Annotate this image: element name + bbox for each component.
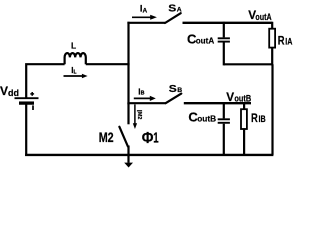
label L xyxy=(71,40,76,50)
switch SA blade xyxy=(165,13,181,23)
label RIA xyxy=(278,34,293,48)
svg-text:S: S xyxy=(169,84,177,95)
wire: inductor to switching node xyxy=(86,63,130,65)
label RIB xyxy=(251,111,266,125)
wire: node to switch SB xyxy=(127,102,165,104)
current arrow IA xyxy=(132,15,157,20)
svg-text:L: L xyxy=(71,40,76,50)
inductor L xyxy=(65,53,86,64)
svg-text:outA: outA xyxy=(255,12,272,22)
wire: top-left from battery up and right to inductor xyxy=(26,64,64,98)
label Vdd xyxy=(0,84,19,98)
svg-text:IM2: IM2 xyxy=(135,110,144,120)
svg-text:IA: IA xyxy=(140,4,148,15)
label Φ1 xyxy=(142,130,159,148)
label SA xyxy=(168,3,182,14)
label SB xyxy=(169,84,183,95)
svg-text:M2: M2 xyxy=(99,129,114,145)
svg-text:R: R xyxy=(251,111,258,125)
ground rail wire xyxy=(25,154,273,156)
ground xyxy=(124,155,133,168)
label M2 xyxy=(99,129,114,145)
svg-text:outB: outB xyxy=(197,114,216,124)
wire: switching node vertical xyxy=(127,22,129,105)
current arrow IB xyxy=(134,96,156,101)
label CoutB xyxy=(188,109,216,124)
label CoutA xyxy=(187,31,214,46)
label VoutA xyxy=(248,8,272,22)
svg-text:IB: IB xyxy=(138,88,144,97)
current arrow IL xyxy=(64,74,88,79)
svg-text:1: 1 xyxy=(153,130,158,147)
capacitor CoutA xyxy=(218,22,230,66)
switch SB blade xyxy=(166,94,182,104)
wire: A branch return (cap bottom to resistor bottom) xyxy=(224,63,273,65)
svg-text:Φ: Φ xyxy=(142,130,154,147)
svg-text:IB: IB xyxy=(259,114,266,124)
svg-text:outA: outA xyxy=(196,36,215,46)
resistor RIB xyxy=(241,102,247,155)
svg-text:R: R xyxy=(278,34,285,48)
wire: battery negative down to ground rail xyxy=(25,103,27,156)
label VoutB xyxy=(226,90,251,104)
wire: SA to VoutA corner xyxy=(183,22,273,24)
wire: right rail down to ground rail xyxy=(271,64,273,155)
svg-text:outB: outB xyxy=(234,94,251,104)
svg-text:IA: IA xyxy=(285,37,292,47)
label IB xyxy=(138,88,144,97)
label IL xyxy=(71,66,76,75)
svg-text:A: A xyxy=(177,7,182,14)
svg-text:IL: IL xyxy=(71,66,76,75)
label IA xyxy=(140,4,148,15)
svg-text:Vdd: Vdd xyxy=(0,84,19,98)
svg-text:S: S xyxy=(168,3,176,14)
label IM2 (rotated) xyxy=(135,110,144,120)
current arrow IM2 xyxy=(133,104,137,129)
wire: node to switch SA xyxy=(127,22,165,24)
svg-text:B: B xyxy=(177,87,182,94)
resistor R1A xyxy=(269,22,275,66)
capacitor CoutB xyxy=(218,102,230,155)
wire: SB to output B xyxy=(184,102,251,104)
transistor M2 switch xyxy=(119,103,128,155)
source Vdd battery xyxy=(15,92,39,110)
svg-text:V: V xyxy=(226,90,234,104)
